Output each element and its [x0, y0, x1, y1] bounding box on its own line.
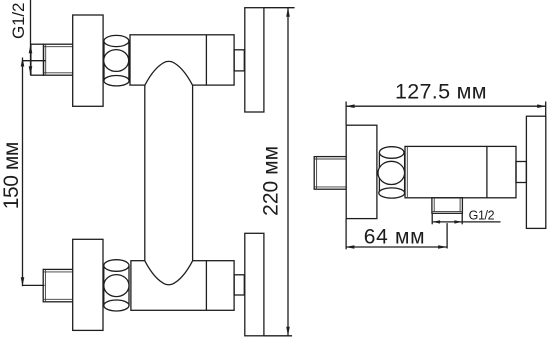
inlet fitting bottom: [43, 269, 73, 301]
dimension 127.5mm: extension right: [545, 102, 547, 117]
wall thread fitting (side view): [314, 157, 346, 190]
dimension 127.5mm: arrow left: [346, 104, 355, 108]
wall thread fitting relief lines: [314, 157, 346, 190]
nut bottom: lower chamfer ellipse: [104, 300, 129, 311]
svg-text:220 мм: 220 мм: [260, 146, 283, 216]
nut (side view): lower chamfer ellipse: [379, 188, 405, 198]
dimension 127.5mm: dimension line: [346, 105, 546, 107]
thread stub G1/2 top: [31, 44, 44, 75]
svg-text:150 мм: 150 мм: [0, 142, 23, 210]
nut top: middle sphere: [104, 50, 129, 72]
wall plate top left: [73, 15, 103, 106]
dimension 150mm: dimension line: [22, 58, 24, 287]
valve body (side view) divider: [486, 146, 488, 197]
nut (side view): upper chamfer ellipse: [379, 147, 404, 159]
svg-text:G1/2: G1/2: [469, 209, 495, 223]
handle plate (side view): [526, 116, 545, 228]
valve body top (front view): [130, 35, 234, 85]
dimension 127.5mm: extension left: [345, 102, 347, 126]
dimension 220mm: arrow down: [286, 327, 290, 336]
mixer central body with spout (white filled, occludes rect edges): [145, 61, 193, 284]
dimension 150mm: arrow down: [21, 277, 25, 286]
valve body bottom (front view): [131, 261, 234, 311]
dimension 64mm: dimension line: [346, 246, 447, 248]
dimension 220mm: extension tick top: [264, 7, 295, 9]
wall plate bottom left: [73, 239, 103, 330]
connector top right: [234, 50, 244, 71]
dimension 220mm: dimension line: [287, 8, 289, 336]
nut (side view): side lines: [378, 153, 380, 194]
inlet fitting top relief lines: [44, 44, 74, 75]
shower outlet nipple: [432, 198, 463, 214]
connector (side view): [516, 162, 526, 183]
nut top: side lines: [103, 41, 105, 81]
dimension 150mm: arrow up: [21, 58, 25, 67]
nut top: lower chamfer ellipse: [104, 76, 129, 86]
dimension G1/2 outlet: extension right: [461, 213, 463, 224]
dimension 64mm: extension right (outlet centre): [446, 223, 448, 248]
dimension 64mm: arrow left: [345, 245, 354, 249]
dimension 220mm: arrow up: [286, 8, 290, 17]
wall plate (side view): [346, 125, 377, 218]
valve body (side view): [405, 146, 516, 197]
shower outlet relief lines: [432, 198, 463, 212]
valve body (side view) inner left edge: [406, 146, 408, 197]
inlet fitting bottom relief lines: [43, 269, 73, 301]
connector bottom right: [234, 275, 244, 295]
dimension 220mm: extension tick bottom: [264, 335, 292, 337]
inlet fitting top: [44, 44, 74, 75]
dimension G1/2 top: arrow down: [29, 66, 33, 75]
dimension G1/2 outlet: extension left: [431, 213, 433, 224]
svg-text:64 мм: 64 мм: [364, 226, 425, 249]
nut bottom: middle sphere: [104, 275, 129, 297]
dimension 64mm: arrow right: [438, 245, 447, 249]
nut bottom: side lines: [103, 266, 105, 306]
valve body bottom divider: [205, 261, 207, 311]
svg-text:G1/2: G1/2: [9, 3, 28, 40]
dimension 150mm: extension tick bottom: [23, 284, 45, 286]
valve body top divider: [205, 35, 207, 85]
nut (side view): middle sphere: [378, 161, 405, 184]
dimension G1/2 top: leader line: [30, 0, 32, 75]
dimension G1/2 top: arrow up: [29, 44, 33, 53]
dimension G1/2 outlet: dimension/leader line: [433, 221, 501, 223]
nut top: upper chamfer ellipse: [104, 35, 129, 46]
dimension G1/2 outlet: arrow left: [433, 220, 441, 223]
dimension 127.5mm: arrow right: [537, 104, 546, 108]
handle plate top right: [245, 8, 264, 112]
dimension G1/2 outlet: arrow right: [454, 220, 462, 223]
handle plate bottom right: [245, 233, 264, 335]
dimension 150mm: extension tick top: [23, 60, 46, 62]
nut bottom: upper chamfer ellipse: [104, 260, 129, 272]
svg-text:127.5 мм: 127.5 мм: [395, 79, 487, 103]
dimension 64mm: extension left lower segment: [345, 219, 347, 250]
